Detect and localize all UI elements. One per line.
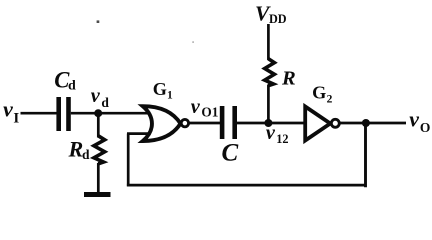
node vO label xyxy=(409,108,430,136)
svg-text:R: R xyxy=(281,67,296,89)
wire C to inverter G2 input (through node v12) xyxy=(237,122,306,125)
svg-text:2: 2 xyxy=(327,94,333,106)
svg-text:G: G xyxy=(153,79,167,99)
wire VDD to R xyxy=(267,24,270,60)
power VDD label xyxy=(255,1,287,25)
svg-text:d: d xyxy=(68,79,76,94)
nor-gate G1 xyxy=(143,106,189,141)
wire feedback into NOR lower input xyxy=(127,132,150,135)
node vI label xyxy=(3,97,19,126)
capacitor C value label xyxy=(222,139,239,166)
resistor R value label xyxy=(281,67,296,89)
capacitor Cd xyxy=(56,97,70,131)
wire G2 output to vO xyxy=(340,122,406,125)
svg-text:v: v xyxy=(266,122,276,144)
wire feedback right vertical xyxy=(364,123,367,187)
capacitor Cd value label xyxy=(54,68,76,94)
svg-text:C: C xyxy=(222,139,239,166)
node v12 junction dot xyxy=(264,119,272,127)
node vO1 label xyxy=(191,96,219,119)
svg-text:O1: O1 xyxy=(201,104,218,119)
resistor Rd xyxy=(94,136,105,164)
svg-text:v: v xyxy=(3,97,13,121)
svg-text:O: O xyxy=(420,120,431,135)
wire R to node v12 xyxy=(267,85,270,124)
svg-text:I: I xyxy=(13,111,19,127)
svg-text:v: v xyxy=(91,85,101,107)
inverter G2 xyxy=(305,107,339,141)
node vO junction dot xyxy=(362,119,370,127)
wire vI to Cd xyxy=(21,112,58,115)
gate G1 label xyxy=(153,79,173,102)
svg-text:d: d xyxy=(82,147,90,162)
speck artifact 2 xyxy=(192,41,194,43)
gate G2 label xyxy=(312,83,333,106)
wire Rd to ground xyxy=(97,163,100,193)
svg-text:R: R xyxy=(68,137,84,162)
wire G1 output to C xyxy=(189,122,222,125)
wire feedback left vertical xyxy=(127,134,130,187)
resistor Rd value label xyxy=(68,137,91,162)
node vd junction dot xyxy=(94,109,102,117)
wire vd node down to Rd xyxy=(97,113,100,137)
ground xyxy=(84,192,111,197)
resistor R xyxy=(265,59,275,86)
svg-text:v: v xyxy=(409,108,419,132)
svg-text:DD: DD xyxy=(269,12,287,26)
svg-text:d: d xyxy=(101,95,109,110)
capacitor C xyxy=(220,106,237,139)
svg-text:1: 1 xyxy=(167,90,173,102)
svg-text:G: G xyxy=(312,83,326,103)
wire feedback bottom horizontal xyxy=(127,184,367,187)
svg-text:12: 12 xyxy=(276,132,288,146)
wire Cd to NOR gate input (through node vd) xyxy=(71,112,150,115)
speck artifact xyxy=(97,20,100,23)
node vd label xyxy=(91,85,110,110)
node v12 label xyxy=(266,122,289,146)
svg-text:v: v xyxy=(191,96,201,118)
